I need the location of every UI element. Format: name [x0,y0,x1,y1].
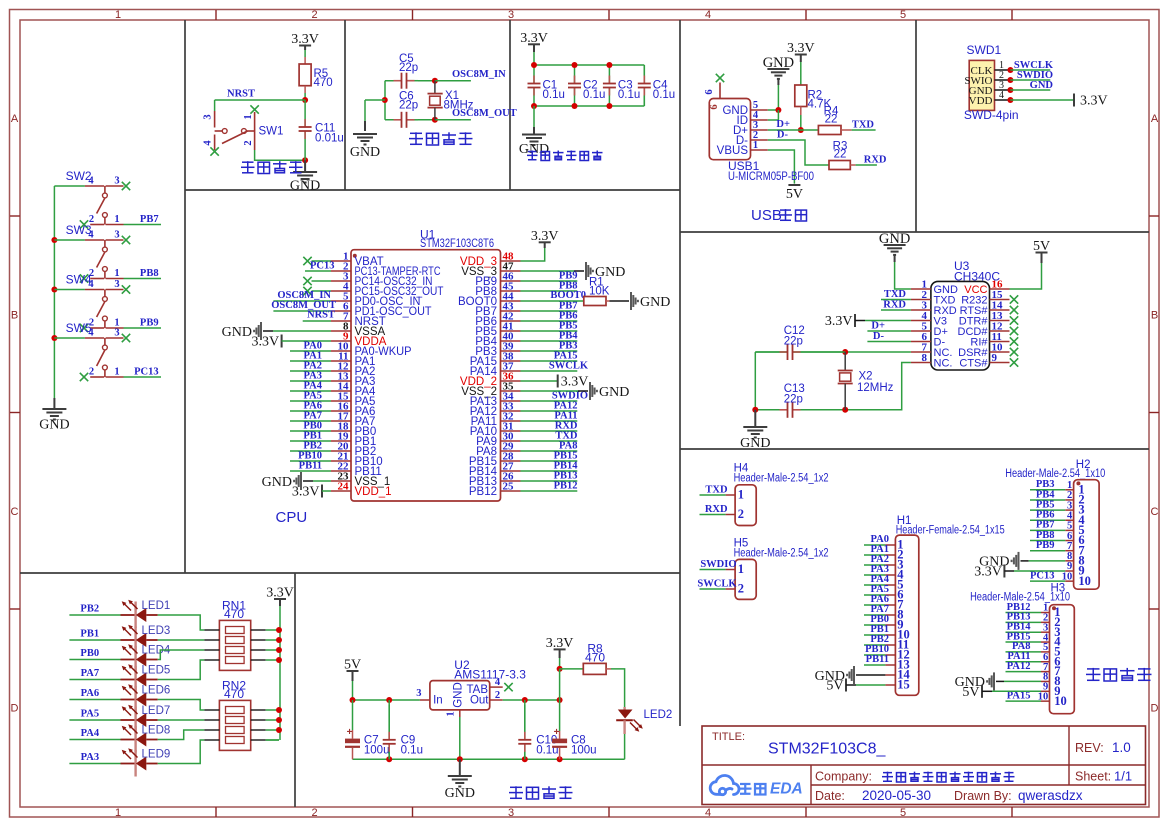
svg-text:PB9: PB9 [1036,540,1055,551]
svg-text:1: 1 [115,807,121,819]
svg-text:PB0: PB0 [80,648,99,659]
svg-text:VBUS: VBUS [717,145,749,157]
svg-text:2: 2 [243,140,254,145]
svg-text:1: 1 [114,214,119,225]
svg-text:1: 1 [446,711,457,716]
svg-text:5: 5 [900,9,906,21]
svg-text:Header-Male-2.54_1x2: Header-Male-2.54_1x2 [734,473,829,485]
svg-text:1.0: 1.0 [1112,740,1131,755]
svg-text:GND: GND [445,786,475,801]
svg-text:100u: 100u [364,745,390,757]
svg-text:3.3V: 3.3V [251,335,279,350]
svg-text:C: C [11,506,19,518]
svg-text:D+: D+ [776,119,790,130]
svg-text:Drawn By:: Drawn By: [954,789,1012,803]
svg-text:PB8: PB8 [140,268,159,279]
svg-text:+: + [347,727,353,738]
svg-text:B: B [11,310,18,322]
svg-text:2: 2 [311,807,317,819]
svg-text:GND: GND [290,179,320,194]
svg-text:22: 22 [834,149,847,161]
svg-text:NRST: NRST [227,89,255,100]
svg-text:1: 1 [738,562,744,576]
svg-text:U-MICRM05P-BF00: U-MICRM05P-BF00 [728,169,814,183]
svg-text:PB12: PB12 [469,486,497,498]
svg-text:REV:: REV: [1075,741,1104,755]
svg-text:22: 22 [825,114,838,126]
svg-text:3: 3 [416,688,421,699]
svg-text:D-: D- [777,130,789,141]
svg-text:4: 4 [203,140,214,146]
svg-text:15: 15 [897,678,910,692]
svg-text:GND: GND [599,385,629,400]
svg-text:PA5: PA5 [81,709,99,720]
svg-text:VDD: VDD [969,95,993,107]
svg-text:USB: USB [751,207,782,224]
svg-text:AMS1117-3.3: AMS1117-3.3 [454,668,526,682]
svg-text:4: 4 [705,807,711,819]
svg-text:Date:: Date: [815,789,845,803]
svg-text:TXD: TXD [884,289,907,300]
svg-text:3: 3 [508,9,514,21]
svg-text:LED6: LED6 [142,685,171,697]
svg-text:TXD: TXD [705,485,728,496]
svg-text:22p: 22p [784,394,803,406]
svg-text:RXD: RXD [864,155,887,166]
svg-text:1: 1 [753,140,758,151]
svg-text:B: B [1151,310,1158,322]
svg-text:BOOT0: BOOT0 [550,290,586,301]
svg-text:3.3V: 3.3V [974,565,1002,580]
svg-text:SW3: SW3 [66,223,92,237]
svg-text:X2: X2 [859,371,873,383]
svg-text:8: 8 [922,352,928,364]
svg-text:6: 6 [709,104,720,109]
svg-text:3.3V: 3.3V [1080,94,1108,109]
svg-text:CPU: CPU [276,509,308,526]
svg-text:9: 9 [992,352,998,364]
svg-text:SW4: SW4 [66,273,92,287]
svg-text:GND: GND [262,475,292,490]
svg-text:PB9: PB9 [140,318,159,329]
svg-text:SWDIO: SWDIO [700,559,736,570]
svg-text:SWD-4pin: SWD-4pin [964,108,1019,122]
svg-text:3: 3 [114,230,119,241]
svg-text:D: D [11,703,19,715]
svg-text:A: A [1151,113,1159,125]
svg-text:100u: 100u [571,745,597,757]
svg-text:LED2: LED2 [644,709,673,721]
svg-text:0.01u: 0.01u [315,133,344,145]
svg-text:6: 6 [704,89,715,94]
svg-text:STM32F103C8T6: STM32F103C8T6 [420,236,494,250]
svg-text:In: In [433,695,443,707]
svg-text:GND: GND [39,418,69,433]
svg-text:3: 3 [114,279,119,290]
svg-text:2: 2 [738,582,744,596]
svg-text:4: 4 [999,90,1004,101]
svg-text:1: 1 [114,367,119,378]
svg-text:PB11: PB11 [299,461,322,472]
svg-text:10K: 10K [589,286,610,298]
svg-text:470: 470 [314,77,333,89]
svg-text:0.1u: 0.1u [618,89,640,101]
svg-text:NRST: NRST [307,310,335,321]
svg-text:LED9: LED9 [142,749,171,761]
svg-text:D+: D+ [871,321,885,332]
svg-text:PC13: PC13 [310,261,335,272]
svg-text:LED1: LED1 [142,600,171,612]
svg-text:PA15: PA15 [1007,690,1031,701]
svg-text:2: 2 [495,690,500,701]
svg-text:PC13: PC13 [1030,570,1055,581]
svg-text:470: 470 [224,687,244,701]
svg-text:22p: 22p [399,62,418,74]
svg-text:Sheet:: Sheet: [1075,770,1111,784]
svg-text:PA3: PA3 [81,752,99,763]
svg-text:10: 10 [1054,694,1067,708]
svg-text:STM32F103C8_: STM32F103C8_ [768,741,886,758]
svg-text:3.3V: 3.3V [292,485,320,500]
svg-text:5: 5 [900,807,906,819]
svg-text:C: C [1151,506,1159,518]
svg-text:1/1: 1/1 [1114,769,1132,784]
svg-text:2: 2 [89,367,94,378]
svg-text:Header-Male-2.54_1x2: Header-Male-2.54_1x2 [734,548,829,560]
svg-text:8MHz: 8MHz [444,100,474,112]
svg-text:1: 1 [114,268,119,279]
svg-text:GND: GND [350,145,380,160]
svg-text:qwerasdzx: qwerasdzx [1018,788,1083,803]
svg-text:GND: GND [1030,80,1054,91]
svg-text:GND: GND [740,436,770,451]
svg-text:+: + [554,727,560,738]
svg-text:SW1: SW1 [259,126,284,138]
svg-text:SWCLK: SWCLK [697,579,737,590]
svg-text:25: 25 [503,481,515,493]
svg-text:12MHz: 12MHz [857,382,894,394]
svg-text:D: D [1151,703,1159,715]
svg-text:PC13: PC13 [134,367,159,378]
svg-text:RXD: RXD [883,300,906,311]
svg-text:SWCLK: SWCLK [549,361,589,372]
svg-text:VDD_1: VDD_1 [355,486,392,498]
svg-text:LED3: LED3 [142,625,171,637]
svg-text:3: 3 [203,114,214,119]
svg-text:Header-Male-2.54_1x10: Header-Male-2.54_1x10 [1005,468,1105,480]
svg-text:OSC8M_IN: OSC8M_IN [452,69,506,80]
svg-text:SWD1: SWD1 [967,43,1002,57]
svg-text:0.1u: 0.1u [653,89,675,101]
svg-text:NC.: NC. [934,358,953,370]
svg-text:GND: GND [453,682,465,708]
svg-text:LED5: LED5 [142,665,171,677]
svg-text:22p: 22p [784,336,803,348]
svg-text:RXD: RXD [705,504,728,515]
svg-text:5V: 5V [962,685,979,700]
svg-text:LED7: LED7 [142,705,171,717]
svg-text:0.1u: 0.1u [583,89,605,101]
svg-text:PA12: PA12 [1007,661,1031,672]
svg-text:TITLE:: TITLE: [712,731,745,743]
svg-text:PA7: PA7 [81,668,99,679]
svg-text:Out: Out [470,695,489,707]
svg-text:PB7: PB7 [140,214,159,225]
svg-text:1: 1 [738,488,744,502]
svg-text:PA4: PA4 [81,728,100,739]
svg-text:SW5: SW5 [66,321,92,335]
svg-text:24: 24 [338,481,350,493]
svg-text:GND: GND [640,295,670,310]
svg-text:PB2: PB2 [80,604,99,615]
svg-text:EDA: EDA [770,781,803,798]
svg-text:PB1: PB1 [80,629,99,640]
svg-text:2020-05-30: 2020-05-30 [862,788,931,803]
svg-text:PB11: PB11 [866,654,889,665]
svg-text:4: 4 [705,9,711,21]
svg-text:CTS#: CTS# [959,358,988,370]
svg-text:PA6: PA6 [81,688,99,699]
svg-text:1: 1 [115,9,121,21]
svg-text:0.1u: 0.1u [543,89,565,101]
svg-text:D-: D- [873,331,885,342]
svg-text:3.3V: 3.3V [561,375,589,390]
svg-text:470: 470 [224,607,244,621]
svg-text:Company:: Company: [815,770,872,784]
svg-text:2: 2 [311,9,317,21]
svg-text:TXD: TXD [852,120,875,131]
svg-text:PB12: PB12 [554,481,578,492]
svg-text:SW2: SW2 [66,169,92,183]
svg-text:10: 10 [1078,574,1091,588]
svg-text:GND: GND [222,325,252,340]
svg-text:4: 4 [495,677,501,688]
svg-text:0.1u: 0.1u [401,745,423,757]
svg-text:A: A [11,113,19,125]
svg-text:22p: 22p [399,100,418,112]
svg-text:470: 470 [585,650,605,664]
svg-text:5V: 5V [826,679,843,694]
svg-text:2: 2 [738,507,744,521]
svg-text:3: 3 [508,807,514,819]
svg-text:LED8: LED8 [142,725,171,737]
svg-text:3: 3 [114,176,119,187]
svg-text:3.3V: 3.3V [825,314,853,329]
svg-text:5V: 5V [786,187,803,202]
svg-text:3: 3 [114,328,119,339]
svg-text:1: 1 [243,114,254,119]
